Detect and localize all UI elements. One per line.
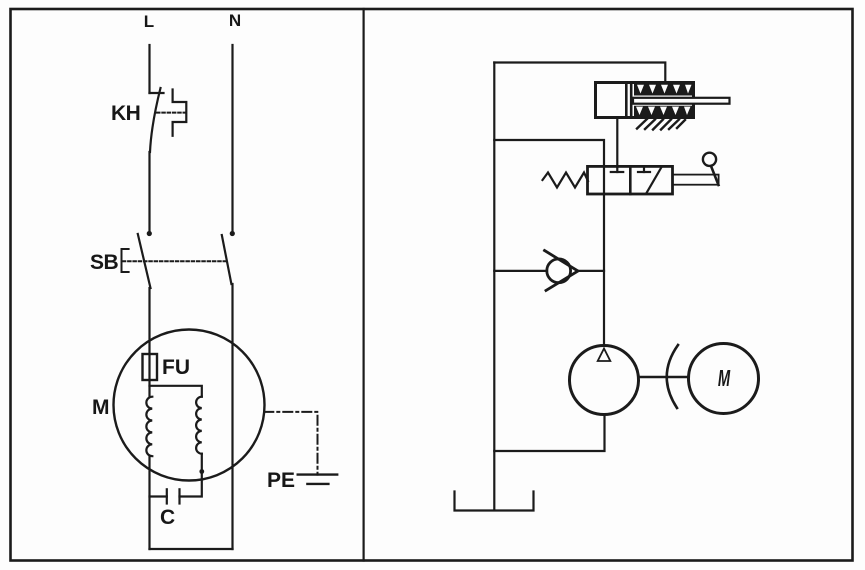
svg-text:M: M	[92, 396, 110, 419]
tank	[455, 492, 534, 511]
return spring top band	[634, 84, 693, 96]
check valve seat	[545, 251, 579, 291]
pilot pipe cylinder to valve	[616, 118, 618, 168]
suction bus pipe	[493, 63, 495, 511]
top pipe to cylinder	[494, 63, 665, 83]
pump P1	[570, 346, 639, 415]
PE dash-dot link	[264, 412, 317, 475]
wire L bottom	[148, 456, 150, 549]
shaft	[639, 376, 688, 378]
wire L upper	[150, 45, 164, 93]
switch SB pole L	[138, 231, 152, 288]
valve return spring	[543, 173, 589, 188]
check valve pipe left	[494, 270, 547, 272]
winding link wire	[150, 386, 202, 397]
svg-text:KH: KH	[111, 102, 140, 125]
svg-text:SB: SB	[90, 251, 119, 274]
check valve pipe right	[578, 270, 604, 272]
label SB	[90, 249, 129, 274]
pipe bus to valve and pump	[494, 140, 604, 346]
check valve ball	[547, 259, 571, 283]
valve lever knob	[703, 153, 716, 166]
wire N upper	[231, 45, 233, 232]
earth PE symbol	[298, 475, 338, 484]
pump outlet triangle	[598, 349, 611, 362]
valve lever rod	[673, 175, 719, 185]
hatch below cylinder	[637, 119, 685, 130]
coupling arc	[667, 345, 678, 408]
electric motor M1	[689, 344, 759, 414]
thermal element KH heater	[173, 90, 187, 136]
cylinder C1 body	[596, 83, 694, 118]
junction dot	[199, 469, 204, 474]
svg-text:PE: PE	[267, 469, 295, 492]
fuse FU	[143, 354, 158, 380]
main winding (left coil)	[146, 397, 152, 457]
pump inlet pipe	[494, 415, 604, 451]
panel divider	[363, 9, 365, 561]
KH linkage dashed	[157, 112, 186, 114]
svg-text:FU: FU	[162, 356, 190, 379]
wire L to motor	[148, 288, 150, 396]
capacitor C	[150, 489, 180, 503]
valve right position port and flow path	[638, 166, 661, 193]
valve V1 body	[588, 166, 673, 194]
wire L mid	[148, 152, 150, 232]
cylinder piston	[626, 83, 631, 117]
switch SB pole N	[222, 231, 235, 284]
piston rod	[633, 98, 730, 104]
svg-text:M: M	[718, 367, 731, 392]
valve left position blocked port	[611, 166, 623, 172]
wire start winding to capacitor	[180, 454, 202, 497]
valve lever arm	[711, 166, 719, 185]
svg-text:N: N	[229, 11, 241, 30]
return spring bottom band	[634, 106, 693, 117]
wire N lower	[231, 284, 233, 549]
svg-text:L: L	[144, 12, 154, 31]
motor M circle	[114, 330, 265, 481]
start winding (right coil)	[196, 397, 202, 454]
bottom wire	[150, 548, 233, 550]
svg-text:C: C	[160, 506, 175, 529]
SB linkage dashed	[123, 260, 226, 262]
thermal contact KH blade	[150, 88, 161, 152]
